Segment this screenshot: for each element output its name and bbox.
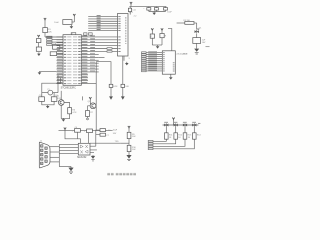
wire DB9 shield to ground xyxy=(59,166,71,168)
svg-text:10uF: 10uF xyxy=(54,22,59,24)
crystal Y1 xyxy=(48,90,53,95)
crystal circuit: wires from U1 XTAL pins xyxy=(57,75,59,93)
resistor R9 xyxy=(127,132,131,138)
resistor R17 on RP1 drop xyxy=(122,56,124,84)
wire R1 down to reset net xyxy=(44,33,46,37)
power VCC9 on rail xyxy=(172,118,174,121)
ground below U2 xyxy=(169,76,173,80)
capacitor C13 xyxy=(154,8,158,11)
svg-text:10K: 10K xyxy=(125,86,129,88)
svg-text:R14: R14 xyxy=(197,134,202,136)
wire net1 xyxy=(153,139,166,141)
svg-text:8.2K: 8.2K xyxy=(113,86,118,88)
resistor R1 xyxy=(43,28,48,33)
svg-text:RP1: RP1 xyxy=(129,12,134,14)
power VCC1 top-left xyxy=(44,18,46,21)
svg-text:R: R xyxy=(165,36,167,38)
svg-text:10K: 10K xyxy=(48,31,52,33)
wire P0.5 xyxy=(88,27,117,29)
ground divider xyxy=(126,155,131,159)
wire Q2 collector down xyxy=(95,105,97,131)
wire net3 xyxy=(153,139,185,146)
wire P0.4 xyxy=(88,25,117,27)
wire VCC1 to R1 xyxy=(44,20,46,28)
wire U3 TXD out xyxy=(90,142,120,144)
wires U1 right rows to RP1 xyxy=(88,36,118,38)
wire vcc rail xyxy=(129,6,166,8)
RP1 part name smudge xyxy=(125,17,127,44)
ground crystal xyxy=(46,105,50,109)
LED rail xyxy=(163,124,199,126)
svg-text:STC89C52RC: STC89C52RC xyxy=(61,87,77,90)
wire P0.2 xyxy=(88,20,117,22)
wire P0.1 xyxy=(88,18,117,20)
svg-text:1K: 1K xyxy=(188,137,191,139)
resistor R4 xyxy=(160,34,164,38)
capacitor C14 xyxy=(164,8,168,11)
svg-text:10K: 10K xyxy=(132,149,136,151)
resistor R8 on drop xyxy=(109,84,113,87)
svg-text:10K: 10K xyxy=(132,136,136,138)
LED D3 xyxy=(174,123,178,126)
svg-text:4.7K: 4.7K xyxy=(72,112,77,114)
wires U3 left pins xyxy=(59,144,78,146)
capacitor C3 30P xyxy=(51,97,57,102)
power VCC3 above C1 xyxy=(73,14,75,17)
wire P0.0 xyxy=(88,16,117,18)
svg-text:2.2: 2.2 xyxy=(134,16,138,18)
wires DB9 to MAX232 xyxy=(50,146,59,148)
wire net row4 xyxy=(52,44,63,46)
power VCC5 xyxy=(151,28,153,31)
ground center caps xyxy=(152,11,156,15)
wire U2 net 9 xyxy=(142,68,163,70)
wire U2 net 8 xyxy=(142,66,163,68)
wire P2.6 extension xyxy=(99,56,105,58)
svg-text:C7: C7 xyxy=(106,135,109,137)
ground U1 left gnd pin xyxy=(40,70,57,72)
wire U2 net 7 xyxy=(142,64,163,66)
ground Q1 xyxy=(62,118,66,122)
MCU U1 STC89C52RC xyxy=(63,35,81,86)
transistor Q2 9012 xyxy=(82,96,84,100)
wire net2 xyxy=(153,139,176,144)
svg-text:MAX232: MAX232 xyxy=(77,156,87,159)
svg-text:24C02_SO8: 24C02_SO8 xyxy=(176,53,188,55)
svg-text:C11: C11 xyxy=(132,9,136,11)
LED D1 xyxy=(195,28,200,33)
svg-text:R7: R7 xyxy=(90,112,93,114)
U1 right pin stubs with pin numbers xyxy=(73,36,99,84)
power VCC6 xyxy=(161,28,163,31)
resistor R10 xyxy=(127,145,131,151)
svg-text:16V: 16V xyxy=(202,42,206,44)
wire caps join to ground xyxy=(42,101,54,104)
net label note xyxy=(206,46,210,48)
wire net row3 xyxy=(52,41,63,43)
chip U2 xyxy=(162,51,175,74)
wire net row2 xyxy=(52,39,63,41)
node label boxes left keys xyxy=(47,36,52,38)
resistor R6 xyxy=(68,108,72,114)
pin 31 EA tie marks above U1 xyxy=(84,33,87,35)
resistor R3 left xyxy=(36,47,41,51)
chip U3 MAX232 xyxy=(78,143,90,155)
net label flags bottom-right xyxy=(148,140,153,142)
wire P0.3 xyxy=(88,23,117,25)
wire U2 net 6 xyxy=(142,62,163,64)
wire node row mid xyxy=(96,62,111,85)
capacitor C16 xyxy=(193,38,201,44)
capacitor row bottom of U1 zone xyxy=(59,130,113,132)
svg-text:16V: 16V xyxy=(113,133,117,135)
power VCC2 xyxy=(37,35,39,38)
label flags on rows to RP1 xyxy=(107,48,112,50)
wire U2 net 1 xyxy=(142,52,163,54)
wire U2 net 10 xyxy=(142,70,163,72)
svg-text:10uF: 10uF xyxy=(113,130,118,132)
wire U2 net 4 xyxy=(142,58,163,60)
wire U2 net 3 xyxy=(142,56,163,58)
wires resistors up xyxy=(165,127,167,133)
ground below C1 xyxy=(70,25,74,29)
wire RP1 bottom xyxy=(123,56,125,61)
resistor R2 xyxy=(36,39,41,43)
capacitor C7 xyxy=(100,133,106,136)
resistor R11 xyxy=(165,133,169,139)
wire net row1 xyxy=(45,36,63,38)
capacitor C15 xyxy=(150,34,154,38)
resistor R12 xyxy=(174,133,178,139)
svg-text:TXD: TXD xyxy=(115,141,120,143)
wire bracket to U2 vcc xyxy=(168,29,172,51)
wire U2 bottom xyxy=(170,74,172,76)
capacitor C6 xyxy=(100,129,106,132)
capacitor C11 on drop xyxy=(128,8,131,11)
power VCC4 top-center xyxy=(130,2,132,5)
svg-text:D1: D1 xyxy=(199,28,202,30)
ground pair xyxy=(156,45,160,49)
resistor R14 xyxy=(193,133,197,139)
LED D5 xyxy=(192,123,196,126)
svg-text:+: + xyxy=(84,131,86,133)
resistor R13 xyxy=(183,133,187,139)
P0 bus top: 7 lines with label flags xyxy=(88,16,117,31)
svg-text:+: + xyxy=(143,8,145,10)
wire U2 net 2 xyxy=(142,54,163,56)
power VCC7 MAX232 xyxy=(64,128,66,131)
capacitor C2 30P xyxy=(39,97,45,102)
wire net4 xyxy=(153,139,194,149)
resistor R7 xyxy=(86,111,90,117)
svg-text:1K: 1K xyxy=(178,137,181,139)
LED D4 xyxy=(183,123,187,126)
ground U3 xyxy=(92,154,94,157)
wire rail drop to RP1 xyxy=(129,7,131,15)
wire join pair xyxy=(152,44,162,46)
U1 left pin stubs with pin numbers xyxy=(57,37,72,84)
svg-text:9: 9 xyxy=(129,58,131,60)
ground below R3 xyxy=(37,52,41,56)
ground below RP1 xyxy=(125,62,129,66)
wire R2 down xyxy=(38,43,40,47)
wire P0.6 xyxy=(88,30,117,32)
wire U2 net 5 xyxy=(142,60,163,62)
svg-text:1K: 1K xyxy=(169,137,172,139)
crystal box X1 left of U1 xyxy=(50,52,56,56)
power VCC8 divider xyxy=(128,126,130,129)
resistor network RP1 xyxy=(118,14,129,57)
LED D2 xyxy=(164,123,168,126)
capacitor C8 left of U1 xyxy=(53,45,60,49)
caption xyxy=(107,173,136,176)
svg-text:10uF: 10uF xyxy=(167,12,172,14)
wire caps join xyxy=(149,11,166,13)
